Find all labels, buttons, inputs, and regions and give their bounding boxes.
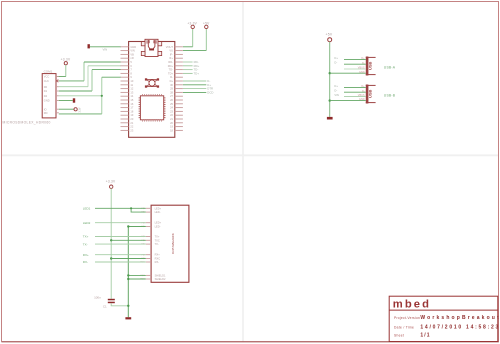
svg-text:RXC: RXC — [155, 257, 161, 261]
svg-text:VU: VU — [169, 49, 173, 53]
svg-text:SHIELD2: SHIELD2 — [155, 277, 166, 281]
wire SHIELD1 from gnd rail — [128, 274, 146, 276]
wire +3.3V rail to C1 — [110, 188, 112, 298]
supply +3.3V (near COM1) — [61, 57, 71, 64]
junction COM1 gnd rail — [101, 95, 103, 97]
svg-text:D+: D+ — [334, 84, 338, 88]
wire D2 net to gnd rail — [59, 95, 102, 97]
svg-text:LED-: LED- — [155, 210, 161, 214]
junction RXC — [110, 257, 112, 259]
connector J1 RJ45 MAGJACK — [140, 205, 189, 282]
svg-text:RD: RD — [44, 111, 48, 115]
wire IO to power flag — [59, 108, 74, 110]
svg-text:IO: IO — [44, 107, 47, 111]
wire TX+ — [95, 236, 146, 238]
svg-text:TX-: TX- — [155, 242, 159, 246]
power flag circle +3.3V — [74, 107, 82, 112]
svg-text:DCD: DCD — [207, 91, 213, 95]
labels X2 USB-B nets — [334, 84, 339, 97]
svg-text:GND: GND — [44, 99, 50, 103]
svg-text:D1: D1 — [44, 89, 48, 93]
svg-text:TX+: TX+ — [155, 235, 160, 239]
svg-text:Date / Time: Date / Time — [394, 326, 414, 330]
wire +5V rail vertical — [329, 42, 331, 117]
svg-text:USB-B: USB-B — [384, 93, 396, 97]
wire LED1 — [95, 207, 146, 209]
junction TXC — [110, 239, 112, 241]
svg-text:TX+: TX+ — [83, 235, 89, 239]
labels X1 USB-A nets — [334, 56, 338, 65]
svg-text:SHIELD1: SHIELD1 — [155, 273, 166, 277]
wires X1 USB-A pins — [330, 59, 366, 73]
svg-text:VIN: VIN — [103, 48, 108, 52]
svg-text:+3.3V: +3.3V — [61, 57, 71, 61]
svg-text:Sheet: Sheet — [394, 334, 404, 338]
connector COM1 MICRODEMOLEX_HDR060 — [3, 70, 59, 125]
svg-text:1/1: 1/1 — [420, 333, 430, 339]
svg-text:TD-: TD- — [169, 68, 173, 72]
svg-text:GND: GND — [130, 45, 136, 49]
svg-text:TXC: TXC — [155, 238, 160, 242]
svg-text:VIN: VIN — [130, 49, 134, 53]
junction C1 gnd — [127, 305, 129, 307]
junction USB1 GND — [329, 72, 331, 74]
module LPC chip graphic — [139, 94, 166, 122]
svg-text:RD-: RD- — [168, 60, 173, 64]
ground bar (RJ45 section) — [125, 317, 131, 319]
svg-text:VIN: VIN — [334, 93, 339, 97]
svg-text:TX-: TX- — [83, 242, 88, 246]
wire CLK net — [59, 62, 121, 81]
svg-text:D0: D0 — [44, 85, 48, 89]
wire D0 net — [59, 66, 121, 87]
wire RD net — [59, 77, 121, 114]
module IC1 MBED_NXP_LPC1768 — [121, 42, 183, 138]
supply +5V (module) — [203, 22, 210, 29]
capacitor C1 100n — [94, 295, 115, 308]
supply bar at COM1 GND — [73, 98, 75, 102]
svg-text:RJ45 MAGJACK: RJ45 MAGJACK — [171, 233, 175, 254]
svg-text:IF-: IF- — [170, 52, 173, 56]
svg-text:D-: D- — [334, 61, 337, 65]
wire TXC from 3.3V rail — [111, 239, 146, 241]
svg-text:D-: D- — [334, 89, 337, 93]
svg-text:RD+: RD+ — [168, 64, 174, 68]
module reset button graphic — [145, 78, 159, 87]
wire VOUT to +3.3V — [183, 29, 193, 47]
svg-text:RX+: RX+ — [155, 253, 161, 257]
svg-text:LED1: LED1 — [83, 207, 91, 211]
svg-text:RX-: RX- — [155, 260, 160, 264]
supply bar VIN — [88, 44, 90, 48]
svg-text:LED-: LED- — [155, 225, 161, 229]
wire gnd rail vertical — [127, 227, 129, 318]
wire +3.3V to COM1 VCC — [56, 65, 66, 77]
svg-text:USB-A: USB-A — [384, 66, 396, 70]
ground bar (USB rail) — [327, 117, 333, 120]
svg-text:D-: D- — [170, 75, 173, 79]
junction USB2 GND — [329, 99, 331, 101]
svg-text:USB: USB — [368, 61, 373, 70]
svg-text:D+: D+ — [170, 79, 174, 83]
svg-text:D2: D2 — [44, 94, 48, 98]
svg-text:+3.3V: +3.3V — [106, 180, 116, 184]
title block frame — [389, 296, 498, 341]
title block fields — [394, 315, 500, 339]
svg-text:nR: nR — [130, 56, 133, 60]
svg-text:VB: VB — [130, 52, 134, 56]
svg-text:IF+: IF+ — [169, 56, 173, 60]
svg-text:mbed: mbed — [393, 299, 431, 311]
svg-text:C1: C1 — [103, 305, 107, 309]
wire RXC from 3.3V rail — [111, 258, 146, 260]
svg-text:CLK: CLK — [44, 79, 49, 83]
svg-text:LED2: LED2 — [83, 221, 91, 225]
connector X1 USB-A — [358, 57, 376, 76]
wire SHIELD2 from gnd rail — [128, 278, 146, 280]
svg-text:WorkshopBreakout: WorkshopBreakout — [420, 315, 500, 321]
supply +3.3V (module) — [187, 22, 197, 29]
wire TX- — [95, 243, 146, 245]
svg-text:RX-: RX- — [83, 260, 88, 264]
module mini-USB connector graphic — [141, 39, 161, 56]
svg-text:100n: 100n — [94, 295, 101, 299]
wires X2 USB-B pins — [330, 87, 366, 100]
wire C1 to gnd rail — [111, 303, 128, 306]
svg-text:+5V: +5V — [326, 33, 333, 37]
svg-text:Project-Version: Project-Version — [394, 316, 420, 320]
svg-text:LED+: LED+ — [155, 206, 162, 210]
wire RX- — [95, 261, 146, 263]
labels LED1/LED2/TX/RX nets — [83, 207, 91, 265]
svg-text:VCC: VCC — [44, 75, 50, 79]
wire LED1- jog — [131, 208, 146, 212]
svg-text:USB: USB — [368, 89, 373, 98]
wire VU to +5V — [183, 29, 206, 51]
svg-text:D+: D+ — [334, 56, 338, 60]
svg-text:3.3V: 3.3V — [79, 107, 82, 112]
svg-text:MICROSDMOLEX_HDR060: MICROSDMOLEX_HDR060 — [3, 120, 51, 124]
svg-text:TD+: TD+ — [194, 72, 200, 76]
wire D1 net — [59, 70, 121, 91]
wire VIN to module — [90, 46, 121, 48]
wires and labels D-/D+/DTR/DCD — [183, 79, 213, 94]
svg-text:LED+: LED+ — [155, 221, 162, 225]
svg-text:TD+: TD+ — [168, 71, 173, 75]
svg-text:14/07/2010 14:58:23: 14/07/2010 14:58:23 — [420, 325, 500, 331]
wire GND to supply bar — [59, 100, 73, 102]
svg-text:COM1: COM1 — [44, 70, 53, 74]
supply +5V (USB section) — [326, 33, 333, 42]
svg-text:VOUT: VOUT — [166, 45, 174, 49]
wire LED2- from gnd rail — [128, 226, 146, 228]
svg-text:RX+: RX+ — [83, 253, 89, 257]
wire RX+ — [95, 254, 146, 256]
wire LED2 — [95, 222, 146, 224]
wires and labels RD-/RD+/TD-/TD+ — [183, 60, 200, 75]
supply +3.3V (RJ45 section) — [106, 180, 116, 189]
connector X2 USB-B — [358, 85, 376, 104]
